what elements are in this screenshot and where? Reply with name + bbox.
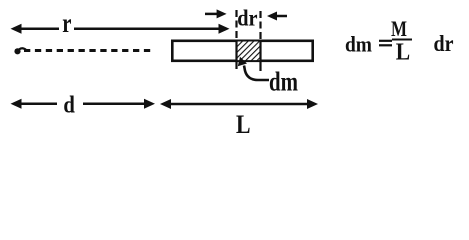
rod rectangle [172,41,312,61]
equation dm = M/L dr [345,16,454,65]
svg-text:d: d [63,93,75,119]
svg-text:L: L [236,110,251,133]
svg-text:M: M [391,16,407,41]
leader arrow from dm label to element [238,57,269,80]
small left arrow (right of dr) [267,12,287,21]
svg-text:dr: dr [434,31,454,56]
svg-text:dr: dr [237,6,257,31]
equals sign [379,40,392,42]
svg-text:dm: dm [345,32,372,57]
hatched mass element dm [237,42,261,61]
arrow L (double-headed dimension arrow) [160,99,318,109]
dashed vertical line left of dr [235,10,237,39]
arrow d (double-headed dimension arrow) [11,99,156,109]
svg-text:L: L [396,40,410,66]
element boundary line right (solid, through rod and below) [259,40,261,72]
svg-text:r: r [62,8,71,38]
svg-text:dm: dm [269,67,298,97]
arrow r (double-headed dimension arrow) [11,24,230,34]
dashed vertical line right of dr [259,11,261,39]
dashed horizontal axis line with hook at left end [14,48,152,54]
small right arrow (above r arrow, left of dr) [205,9,227,18]
fraction bar [392,39,412,41]
element boundary line left (solid, through rod and below) [235,40,237,70]
